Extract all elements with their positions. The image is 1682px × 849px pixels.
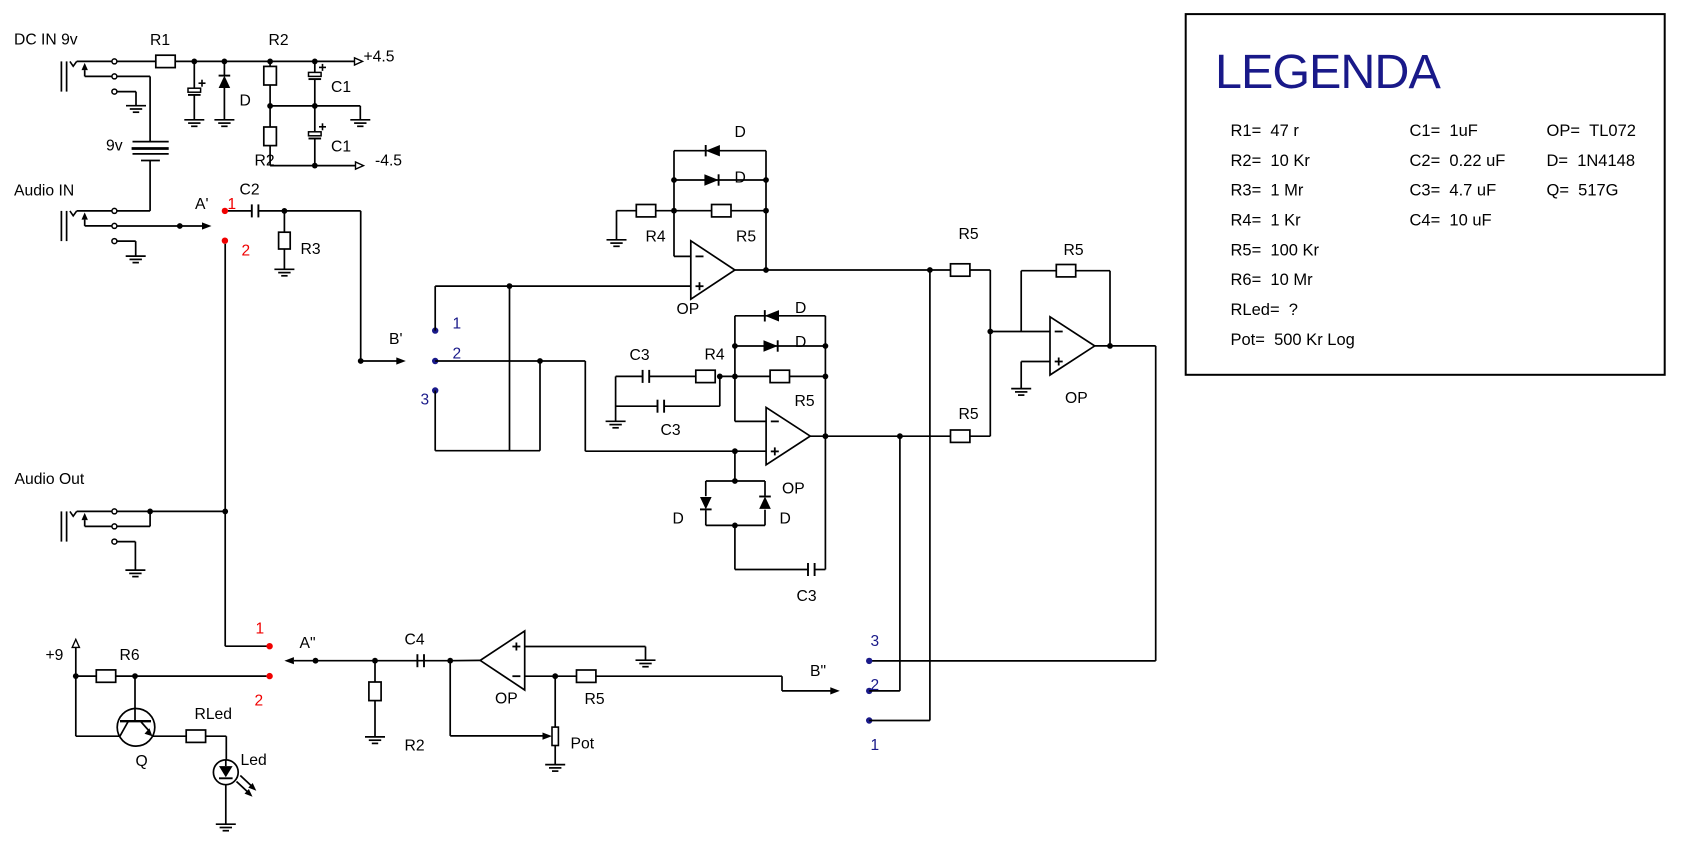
op-amp U2 <box>766 407 810 464</box>
wire B'2 right <box>435 360 585 362</box>
node B' contact 3 <box>432 387 438 393</box>
diode D feedback1 U2 <box>765 310 779 321</box>
wire J1 sleeve to ground <box>117 91 136 93</box>
ground under R2 <box>365 736 385 738</box>
wire pot bottom <box>554 746 556 765</box>
wire J2 sleeve <box>117 240 136 242</box>
svg-text:C1= 1uF: C1= 1uF <box>1410 122 1478 140</box>
wire R2 top stub <box>269 61 271 66</box>
svg-text:2: 2 <box>453 346 462 363</box>
junction U2 rb node <box>717 374 723 380</box>
diode D clip right <box>759 497 771 509</box>
wire R6 rail left <box>76 675 97 677</box>
wire A'2 down to A''1 <box>224 244 226 646</box>
svg-text:R4: R4 <box>705 347 725 364</box>
ground mid rail <box>350 119 370 121</box>
arrow B' feed <box>396 357 406 364</box>
node B'' contact 1 <box>866 717 872 723</box>
diode D feedback1 U1 <box>706 145 720 156</box>
junction J3 tip <box>147 509 153 515</box>
wire U4 plus to ground <box>525 646 646 648</box>
wire U1 diode branch 2 <box>674 179 766 181</box>
svg-text:2: 2 <box>242 243 251 260</box>
node B' contact 1 <box>432 327 438 333</box>
node A'' contact 1 <box>266 643 272 649</box>
junction U1 d2 right <box>763 177 769 183</box>
capacitor C4 <box>416 654 418 667</box>
wire U3 feedback up <box>1020 271 1022 332</box>
node B' contact 2 <box>432 358 438 364</box>
wire R4 to bus <box>656 210 674 212</box>
junction U1 out bus <box>927 267 933 273</box>
wire C3b branch <box>615 376 617 421</box>
wire R5br to U3 minus <box>970 435 990 437</box>
transistor Q <box>117 709 155 747</box>
svg-text:R5: R5 <box>959 406 979 423</box>
svg-text:OP: OP <box>782 481 805 498</box>
svg-text:RLed: RLed <box>195 706 233 723</box>
ground J3 sleeve <box>125 569 145 571</box>
wire J3 tip <box>117 510 150 512</box>
wire mid rail <box>270 105 360 107</box>
diode D feedback2 U1 <box>704 174 718 185</box>
capacitor C2 <box>251 204 253 217</box>
ground U4 plus <box>636 659 656 661</box>
wire R5 to B'' <box>596 675 782 677</box>
wire bus2 down <box>899 436 901 691</box>
wire R2 to midrail <box>269 85 271 106</box>
svg-text:R2: R2 <box>255 153 275 170</box>
svg-text:Led: Led <box>241 752 267 769</box>
junction U1 d2 left <box>671 177 677 183</box>
svg-text:C4= 10 uF: C4= 10 uF <box>1410 211 1492 229</box>
resistor R5 U1 <box>712 205 731 217</box>
wire J3 ring loop <box>117 525 150 527</box>
wire R6 rail right <box>116 675 267 677</box>
svg-text:D: D <box>795 300 806 317</box>
wire B''1 to bus1 <box>869 720 930 722</box>
wire U3 feedback to out <box>1076 270 1110 272</box>
junction diode pair top <box>732 478 738 484</box>
wire J2 ring signal <box>117 225 203 227</box>
wire B'2 branch down <box>539 361 541 451</box>
resistor R2 upper <box>264 66 277 85</box>
wire R4 U1 stub <box>617 210 637 212</box>
wire U2 diode branch top <box>735 315 826 317</box>
wire U2 output rail <box>810 435 950 437</box>
ground under R3 <box>274 268 294 270</box>
arrow B'' feed <box>830 687 840 694</box>
svg-text:C3= 4.7 uF: C3= 4.7 uF <box>1410 182 1497 200</box>
wire C3a to R4 <box>650 375 696 377</box>
svg-text:LEGENDA: LEGENDA <box>1215 45 1441 99</box>
wire U1 output bus <box>765 151 767 270</box>
wire R2 to ground <box>374 701 376 737</box>
wire dp right lower <box>764 510 766 526</box>
junction U2 d2 left <box>732 343 738 349</box>
wire R5 U2 right <box>789 375 825 377</box>
resistor R5 U2 <box>770 370 789 382</box>
ground R4 U1 <box>607 239 627 241</box>
wire C1 lower top <box>314 106 316 132</box>
wire dp left stub <box>705 481 707 496</box>
resistor RLed <box>186 730 205 742</box>
wire ring to battery <box>117 75 150 77</box>
junction -rail-C1 <box>312 163 318 169</box>
led Led <box>213 760 238 785</box>
arrow -4.5 output <box>356 162 364 169</box>
capacitor C3 lower <box>657 400 659 413</box>
junction U1 r branch left <box>671 208 677 214</box>
node A' contact 1 <box>222 208 228 214</box>
wire branch down <box>509 286 511 451</box>
wire pot top <box>554 676 556 727</box>
junction R6-base <box>132 673 138 679</box>
svg-text:R2: R2 <box>405 738 425 755</box>
svg-text:R1: R1 <box>150 32 170 49</box>
svg-text:D: D <box>795 334 806 351</box>
junction C2-R3 <box>282 208 288 214</box>
wire +9 stub <box>75 647 77 676</box>
junction midrail-R2 <box>267 103 273 109</box>
svg-text:C2: C2 <box>240 182 260 199</box>
wire R5tr to U3 minus <box>970 269 990 271</box>
arrow A'' feed <box>284 657 294 664</box>
junction U2 rb right <box>823 374 829 380</box>
ground U3 plus <box>1011 388 1031 390</box>
wire pot wiper <box>449 661 451 736</box>
junction diode pair bottom <box>732 523 738 529</box>
wire U2 right bus <box>824 316 826 436</box>
svg-text:R5: R5 <box>795 393 815 410</box>
junction U2 rb left <box>732 374 738 380</box>
svg-text:1: 1 <box>256 621 265 638</box>
wire R5 branch U1 <box>674 210 712 212</box>
wire C1 lower bottom <box>314 139 316 166</box>
svg-text:C3: C3 <box>797 588 817 605</box>
svg-text:R4: R4 <box>646 229 666 246</box>
svg-text:OP: OP <box>495 691 518 708</box>
wire -V rail <box>270 165 356 167</box>
junction B'2 branch <box>537 358 543 364</box>
svg-text:D: D <box>735 170 746 187</box>
svg-text:R5= 100 Kr: R5= 100 Kr <box>1231 242 1320 260</box>
wire dp right stub <box>764 481 766 496</box>
svg-text:Pot= 500 Kr Log: Pot= 500 Kr Log <box>1231 331 1355 349</box>
svg-text:R5: R5 <box>959 226 979 243</box>
connector J2 audio input jack <box>60 211 62 241</box>
junction J3 on A-bus <box>222 509 228 515</box>
svg-text:A": A" <box>300 635 316 652</box>
connector J1 DC input jack <box>60 61 62 91</box>
svg-text:-4.5: -4.5 <box>375 153 402 170</box>
wire diode pair bottom rail <box>706 524 765 526</box>
svg-text:1: 1 <box>871 737 880 754</box>
ground C3 stub <box>606 420 626 422</box>
wire Q collector to +9 <box>75 676 77 736</box>
op-amp U4 <box>480 631 525 690</box>
wire Q emitter to RLed <box>152 735 186 737</box>
wire C filter bottom <box>193 95 195 120</box>
svg-text:C1: C1 <box>331 139 351 156</box>
resistor R4 U1 <box>636 205 655 217</box>
wire D top <box>223 61 225 75</box>
svg-text:R3: R3 <box>301 241 321 258</box>
capacitor C filter (polarized) <box>199 82 206 84</box>
resistor R1 <box>156 55 175 67</box>
potentiometer Pot <box>552 727 558 745</box>
svg-text:R2= 10 Kr: R2= 10 Kr <box>1231 152 1311 170</box>
svg-text:2: 2 <box>255 693 264 710</box>
wire C3b to node <box>665 405 720 407</box>
svg-text:R5: R5 <box>585 691 605 708</box>
svg-text:R5: R5 <box>1064 242 1084 259</box>
ground under filter cap <box>184 119 204 121</box>
ground J2 sleeve <box>126 255 146 257</box>
junction rail-D <box>222 59 228 65</box>
wire U4 minus <box>525 675 577 677</box>
arrow A' feed <box>202 222 212 229</box>
wire R2 lower stub <box>269 106 271 127</box>
svg-text:D: D <box>240 93 251 110</box>
junction U1 r branch right <box>763 208 769 214</box>
svg-text:R6: R6 <box>120 647 140 664</box>
svg-text:+9: +9 <box>46 647 64 664</box>
wire +V rail <box>175 60 355 62</box>
wire C3c to out bus <box>815 569 825 571</box>
wire dp left lower <box>705 510 707 525</box>
junction U2 out bus <box>823 433 829 439</box>
junction U2 plus <box>732 448 738 454</box>
svg-text:R1= 47 r: R1= 47 r <box>1231 122 1300 140</box>
svg-text:9v: 9v <box>106 138 123 155</box>
diode D feedback2 U2 <box>764 340 778 351</box>
wire U2 plus to diode pair <box>734 451 736 481</box>
svg-text:Q: Q <box>136 753 148 770</box>
wire J3 sleeve <box>117 541 135 543</box>
wire B' arrow <box>361 360 397 362</box>
wire U3 out down to B''3 <box>1155 346 1157 661</box>
svg-text:D: D <box>780 511 791 528</box>
svg-text:Q= 517G: Q= 517G <box>1547 182 1619 200</box>
arrow +9 supply <box>72 639 79 647</box>
svg-text:B': B' <box>389 331 402 348</box>
wire U2 minus bus <box>734 316 736 422</box>
svg-text:R6= 10 Mr: R6= 10 Mr <box>1231 271 1314 289</box>
wire U2 diode branch 2 <box>735 345 826 347</box>
resistor R3 <box>279 232 291 249</box>
svg-text:Audio IN: Audio IN <box>14 183 74 200</box>
wire C4 to U4 <box>450 659 480 661</box>
capacitor C1 upper (polarized) <box>319 66 326 68</box>
junction rail-C <box>191 59 197 65</box>
wire bus1 down <box>929 270 931 721</box>
svg-text:3: 3 <box>871 633 880 650</box>
svg-text:D: D <box>735 124 746 141</box>
node B'' contact 3 <box>866 658 872 664</box>
svg-text:D= 1N4148: D= 1N4148 <box>1547 152 1636 170</box>
resistor R2 lower <box>264 127 277 146</box>
resistor R6 <box>96 670 115 682</box>
wire J2 tip to battery minus <box>117 210 150 212</box>
wire R3 stub <box>283 211 285 232</box>
junction C4 out <box>447 658 453 664</box>
wire diode pair top rail <box>706 480 765 482</box>
ground J1 sleeve <box>126 105 146 107</box>
junction B''2 bus <box>897 433 903 439</box>
svg-text:RLed= ?: RLed= ? <box>1231 301 1298 319</box>
wire C filter top <box>193 61 195 88</box>
wire C2 to R3 node <box>259 210 285 212</box>
junction U3 minus <box>987 329 993 335</box>
node B'' contact 2 <box>866 688 872 694</box>
wire U3 minus <box>990 331 1050 333</box>
wire B''2 to bus2 <box>869 690 900 692</box>
svg-text:C3: C3 <box>630 347 650 364</box>
svg-text:R4= 1 Kr: R4= 1 Kr <box>1231 211 1302 229</box>
resistor R5 top right <box>951 264 970 276</box>
junction midrail-C1 <box>312 103 318 109</box>
svg-text:R2: R2 <box>269 32 289 49</box>
capacitor C3 bottom <box>807 563 809 576</box>
junction A'' a <box>313 658 319 664</box>
svg-text:Pot: Pot <box>571 736 595 753</box>
ground under diode D <box>214 119 234 121</box>
svg-text:+4.5: +4.5 <box>364 49 395 66</box>
junction rail-R2 <box>267 59 273 65</box>
op-amp U1 <box>691 241 735 299</box>
op-amp U3 <box>1050 317 1095 375</box>
wire C1 to midrail <box>314 79 316 106</box>
wire dp to C3c <box>734 525 736 569</box>
svg-text:Audio Out: Audio Out <box>15 471 85 488</box>
ground under Pot <box>545 764 565 766</box>
junction U4 minus <box>552 673 558 679</box>
wire C1 top stub <box>314 61 316 72</box>
junction U1 plus branch <box>507 283 513 289</box>
wire R2 stub <box>374 661 376 682</box>
wire A' to B' <box>284 210 360 212</box>
svg-text:C1: C1 <box>331 79 351 96</box>
node A' contact 2 <box>222 238 228 244</box>
junction ring signal <box>177 223 183 229</box>
resistor R4 U2 <box>696 370 715 382</box>
ground under Led <box>216 823 236 825</box>
node A'' contact 2 <box>266 673 272 679</box>
wire battery to Audio IN tip <box>149 161 151 211</box>
resistor R5 feedback U3 <box>1056 265 1075 277</box>
wire A'' line <box>294 660 450 662</box>
junction +9 rail <box>73 673 79 679</box>
svg-text:A': A' <box>195 196 208 213</box>
resistor R2 input <box>369 682 381 701</box>
resistor R5 bottom right <box>951 430 970 442</box>
wire RLed to Led <box>206 735 227 737</box>
junction U1 output <box>763 267 769 273</box>
wire U1 out to R5 <box>735 269 951 271</box>
junction U3 out <box>1107 343 1113 349</box>
svg-text:C3: C3 <box>661 422 681 439</box>
wire A'1 to C2 <box>228 210 252 212</box>
svg-text:D: D <box>673 511 684 528</box>
wire R2 to -rail <box>269 146 271 166</box>
wire J1 tip to R1 <box>117 60 156 62</box>
svg-text:1: 1 <box>453 316 462 333</box>
junction rail-C1 <box>312 59 318 65</box>
diode D clip left <box>700 497 712 509</box>
svg-text:3: 3 <box>421 392 430 409</box>
svg-text:C2= 0.22 uF: C2= 0.22 uF <box>1410 152 1506 170</box>
diode D protection <box>219 76 231 88</box>
wire U3 output <box>1095 345 1156 347</box>
wire B'3 down <box>434 391 436 451</box>
svg-text:C4: C4 <box>405 632 425 649</box>
svg-text:R3= 1 Mr: R3= 1 Mr <box>1231 182 1304 200</box>
resistor R5 output <box>577 670 596 682</box>
capacitor C1 lower (polarized) <box>319 126 326 128</box>
arrow +4.5 output <box>355 58 363 65</box>
wire B'1 to opamp U1 + <box>434 286 436 331</box>
wire B'2 to opamp U2 + <box>584 361 586 451</box>
svg-text:OP: OP <box>1065 390 1088 407</box>
capacitor C3 upper <box>642 370 644 383</box>
svg-text:R5: R5 <box>736 229 756 246</box>
wire D bottom <box>223 88 225 120</box>
led light arrows <box>240 776 251 786</box>
wire C3a left stub <box>616 375 642 377</box>
junction B' <box>358 358 364 364</box>
svg-text:OP: OP <box>677 301 700 318</box>
legend box <box>1186 14 1665 375</box>
junction A'' R2 <box>372 658 378 664</box>
wire U1 diode branch top <box>674 150 766 152</box>
battery 9v <box>133 141 169 143</box>
wire J3 to A-bus <box>150 510 225 512</box>
wire Q base <box>134 676 136 721</box>
wire U1 minus bus <box>673 151 675 257</box>
wire Led to ground <box>225 785 227 824</box>
wire U3 plus <box>1021 361 1050 363</box>
svg-text:DC IN 9v: DC IN 9v <box>14 31 78 48</box>
svg-text:B": B" <box>810 663 826 680</box>
wire U2 R branch <box>720 375 771 377</box>
wire R3 to ground <box>283 249 285 269</box>
svg-text:OP= TL072: OP= TL072 <box>1547 122 1636 140</box>
connector J3 audio output jack <box>60 511 62 541</box>
junction U2 d2 right <box>823 343 829 349</box>
